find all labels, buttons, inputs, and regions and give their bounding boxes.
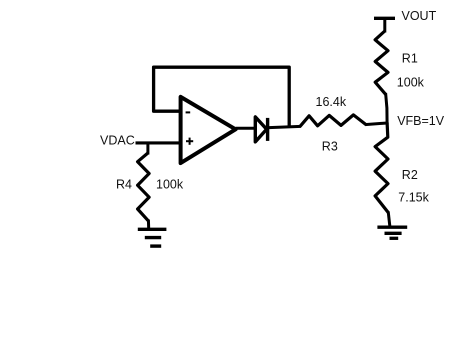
- wire diode to R3: [269, 126, 301, 127]
- wire R4 to ground: [147, 220, 150, 230]
- resistor R1: [375, 31, 388, 94]
- ground (right): [377, 227, 407, 238]
- wire R3 to node VFB: [365, 123, 387, 125]
- resistor R2: [375, 123, 388, 213]
- diode: [255, 117, 267, 142]
- wire VDAC to op-amp non-inverting input: [136, 141, 181, 144]
- svg-text:R4: R4: [116, 178, 132, 192]
- op-amp inverting input minus symbol: [186, 111, 191, 113]
- junction VDAC / R4: [146, 143, 149, 155]
- wire VOUT terminal to R1: [383, 18, 386, 32]
- svg-text:100k: 100k: [156, 178, 184, 192]
- node VOUT terminal: [374, 17, 395, 20]
- op-amp: [181, 97, 236, 163]
- svg-text:100k: 100k: [397, 76, 425, 90]
- svg-text:VOUT: VOUT: [402, 9, 437, 23]
- op-amp non-inverting input plus symbol: [186, 138, 193, 145]
- svg-text:16.4k: 16.4k: [316, 95, 347, 109]
- svg-text:VDAC: VDAC: [100, 134, 135, 148]
- ground (left): [138, 229, 167, 246]
- wire feedback loop (op-amp output to inverting input): [154, 67, 290, 127]
- resistor R4: [138, 153, 150, 221]
- wire R2 to ground: [388, 212, 390, 227]
- svg-text:R3: R3: [322, 140, 338, 154]
- svg-text:7.15k: 7.15k: [398, 191, 429, 205]
- svg-text:R2: R2: [402, 168, 418, 182]
- svg-text:R1: R1: [402, 52, 418, 66]
- svg-text:VFB=1V: VFB=1V: [397, 114, 445, 128]
- wire op-amp output to diode: [236, 127, 255, 130]
- wire R1 to node VFB: [386, 93, 388, 124]
- resistor R3: [300, 115, 366, 127]
